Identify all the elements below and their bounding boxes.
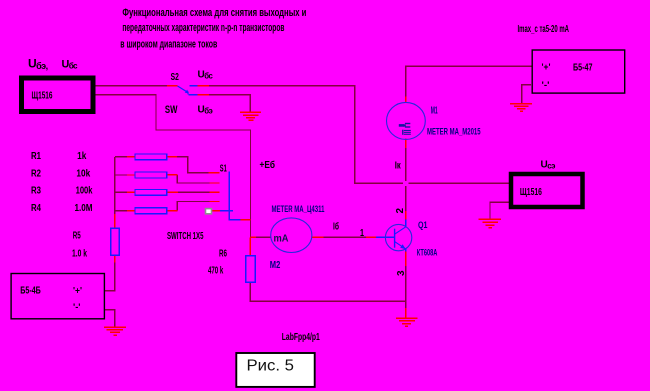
svg-text:'+': '+' (73, 286, 82, 296)
svg-text:Uбэ: Uбэ (198, 105, 213, 116)
svg-text:'-': '-' (73, 302, 81, 312)
svg-text:Рис. 5: Рис. 5 (247, 357, 295, 374)
svg-text:'+': '+' (542, 62, 551, 72)
svg-text:'-': '-' (542, 80, 550, 90)
svg-text:Uбс: Uбс (198, 70, 214, 81)
svg-text:1: 1 (360, 228, 364, 239)
svg-text:Iб: Iб (333, 221, 339, 233)
svg-text:3: 3 (396, 270, 407, 276)
svg-text:470 k: 470 k (208, 266, 224, 277)
svg-text:Б5-4Б: Б5-4Б (20, 286, 41, 297)
svg-text:Б5-47: Б5-47 (573, 63, 593, 74)
svg-text:1.0M: 1.0M (75, 203, 93, 214)
svg-text:100k: 100k (76, 186, 93, 197)
svg-text:METER MA_Ц4311: METER MA_Ц4311 (272, 204, 325, 215)
svg-text:R2: R2 (31, 168, 41, 179)
svg-text:Щ1516: Щ1516 (520, 187, 542, 198)
svg-text:Q1: Q1 (418, 220, 428, 231)
svg-text:R4: R4 (31, 203, 41, 214)
svg-text:R5: R5 (73, 231, 81, 242)
svg-text:Щ1516: Щ1516 (32, 90, 53, 102)
svg-text:METER MA_M2015: METER MA_M2015 (427, 126, 481, 137)
svg-text:R3: R3 (31, 186, 41, 197)
svg-text:SW: SW (165, 104, 178, 116)
svg-text:mA: mA (274, 233, 289, 245)
svg-text:в широком диапазоне токов: в широком диапазоне токов (120, 39, 217, 51)
svg-text:S2: S2 (171, 72, 179, 83)
svg-text:Функциональная схема для сняти: Функциональная схема для снятия выходных… (122, 7, 306, 19)
svg-text:Uсэ: Uсэ (541, 160, 556, 171)
svg-text:M2: M2 (270, 260, 281, 271)
svg-text:Iк: Iк (395, 161, 402, 172)
svg-text:R1: R1 (31, 151, 41, 162)
svg-text:передаточных характеристик n-p: передаточных характеристик n-p-n транзис… (122, 22, 284, 34)
svg-text:LabFpp4/p1: LabFpp4/p1 (282, 332, 320, 343)
svg-text:1.0 k: 1.0 k (72, 249, 87, 260)
svg-text:SWITCH 1X5: SWITCH 1X5 (167, 230, 204, 242)
svg-text:M1: M1 (431, 106, 438, 117)
svg-text:+Eб: +Eб (260, 159, 276, 171)
svg-text:R6: R6 (219, 249, 227, 260)
svg-text:КТ608А: КТ608А (417, 248, 438, 259)
svg-text:10k: 10k (76, 168, 90, 179)
svg-text:S1: S1 (220, 164, 227, 175)
svg-text:Imax_с та5-20 mA: Imax_с та5-20 mA (518, 24, 570, 35)
svg-text:1k: 1k (77, 151, 87, 162)
svg-text:2: 2 (395, 208, 406, 214)
